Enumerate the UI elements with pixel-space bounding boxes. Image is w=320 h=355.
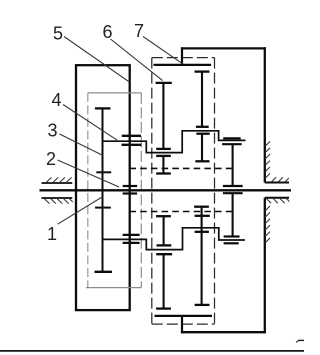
right gear unit phantom dashed rect <box>152 58 215 325</box>
leader line 2 <box>58 160 120 187</box>
svg-text:7: 7 <box>134 21 144 41</box>
leader line 7 <box>143 37 182 64</box>
leader line 6 <box>111 39 163 81</box>
right wall hatching lower <box>265 199 289 243</box>
input gear disk column <box>102 108 104 271</box>
main shaft <box>40 189 292 191</box>
lower middle gear I1 <box>156 216 171 245</box>
carrier line lower-left <box>103 228 245 250</box>
upper middle gear I2 <box>156 156 171 174</box>
ring gear top connector <box>181 47 183 65</box>
leader line 4 <box>63 105 117 141</box>
svg-text:6: 6 <box>102 22 112 42</box>
left bearing hatching top <box>47 177 72 182</box>
carrier line upper-left <box>103 131 246 153</box>
output mesh caps upper <box>223 137 241 139</box>
ring gear top line <box>154 64 212 66</box>
right housing <box>181 47 266 333</box>
output gear column lower <box>232 193 234 236</box>
input gear bottom cap <box>95 271 113 273</box>
svg-text:4: 4 <box>51 90 61 110</box>
left bearing hatching bottom <box>45 199 73 204</box>
input pinion lower cap <box>95 207 111 209</box>
leader line 3 <box>60 134 103 155</box>
svg-text:2: 2 <box>46 149 56 169</box>
bottom page rule <box>0 350 304 352</box>
upper right gear I1 <box>195 72 210 127</box>
ring gear bottom line <box>155 315 213 317</box>
svg-text:5: 5 <box>53 24 63 44</box>
clutch engage dashed line lower <box>130 211 232 213</box>
ring gear bottom connector <box>181 316 183 333</box>
clutch column shaft caps <box>123 185 137 187</box>
lower right gear I2 <box>195 232 210 305</box>
right wall shaft-gap lines <box>265 182 289 184</box>
output mesh caps lower <box>224 235 240 237</box>
svg-text:1: 1 <box>47 224 57 244</box>
left bearing lines <box>42 182 73 184</box>
svg-text:3: 3 <box>47 120 57 140</box>
label digits <box>46 21 144 244</box>
lower right gear I1 <box>194 207 210 232</box>
page corner mark <box>298 339 304 341</box>
clutch column caps pair1 <box>122 135 141 137</box>
output clutch caps at shaft <box>223 185 243 187</box>
upper right gear I2 <box>195 134 209 162</box>
left housing (brake drum housing) <box>76 65 130 310</box>
upper middle gear I1 <box>156 83 172 149</box>
inner thin rect (clutch drum, phantom gray) <box>86 93 141 288</box>
clutch column caps pair3 <box>123 234 140 236</box>
output gear column upper <box>232 144 234 186</box>
lower middle gear I2 <box>156 254 172 308</box>
input pinion upper cap <box>96 171 111 173</box>
leader line 1 <box>58 197 103 225</box>
leader line 5 <box>64 37 129 83</box>
input gear top cap <box>95 107 111 109</box>
right wall hatching upper <box>265 141 289 181</box>
clutch engage dashed line upper <box>130 167 232 169</box>
